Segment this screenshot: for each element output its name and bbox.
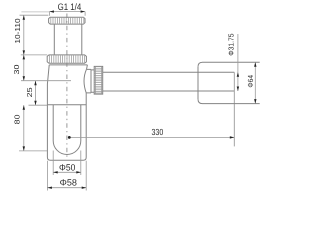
trap body shoulder top edge (49, 64, 87, 66)
extension tick at cup inner bottom (19, 150, 47, 152)
dimension G1 1/4 (line, extensions, arrows) (21, 10, 85, 15)
dimension 330 (line, dot, arrow) (68, 136, 234, 139)
pipe end line + 330 extension line (233, 72, 235, 146)
cup screw joint line (47, 104, 86, 106)
dimension phi64 (line + arrows) (254, 62, 256, 103)
svg-text:Φ58: Φ58 (60, 177, 77, 187)
extension tick at tailpiece top (20, 14, 49, 16)
wall sleeve tube (phi64) (198, 62, 260, 103)
svg-text:30: 30 (12, 65, 21, 75)
extension tick at outlet axis (21, 80, 71, 82)
horizontal outlet pipe (phi31.75) (103, 72, 235, 91)
outlet cone stub (86, 69, 94, 93)
trap body / cup outer outline (47, 65, 86, 160)
inner cup bore (phi50) (53, 105, 81, 155)
telescopic inlet tube (54, 24, 82, 55)
dimension 80 (line + arrows) (23, 105, 25, 151)
svg-text:25: 25 (25, 87, 34, 97)
dimension phi58 (extensions, line, arrows) (47, 161, 86, 191)
extension tick at cup joint (29, 104, 48, 106)
dimension 10-110 (line + arrows) (23, 15, 25, 55)
vertical centerline of trap body (66, 14, 68, 158)
extension tick at middle nut top (21, 54, 47, 56)
outlet-to-body intersection arc (84, 69, 86, 93)
svg-text:10-110: 10-110 (13, 18, 22, 43)
svg-text:Φ31.75: Φ31.75 (226, 33, 235, 55)
svg-text:330: 330 (152, 127, 164, 137)
svg-text:Φ50: Φ50 (59, 162, 75, 172)
top knurled nut (G1 1/4 inlet nut) (49, 17, 85, 24)
dimension 30 (line + arrows) (23, 55, 25, 81)
dimension 25 (line + arrows) (34, 81, 36, 106)
svg-text:G1 1/4: G1 1/4 (58, 1, 82, 12)
dimension phi50 (extensions, line, arrows) (53, 151, 81, 176)
outlet knurled nut (94, 66, 103, 94)
dimension phi31.75 (line + arrows) (237, 34, 239, 91)
middle knurled nut on trap body (47, 55, 86, 63)
svg-text:80: 80 (13, 115, 22, 125)
svg-text:Φ64: Φ64 (246, 75, 255, 88)
trap body right shoulder edge (86, 65, 89, 69)
